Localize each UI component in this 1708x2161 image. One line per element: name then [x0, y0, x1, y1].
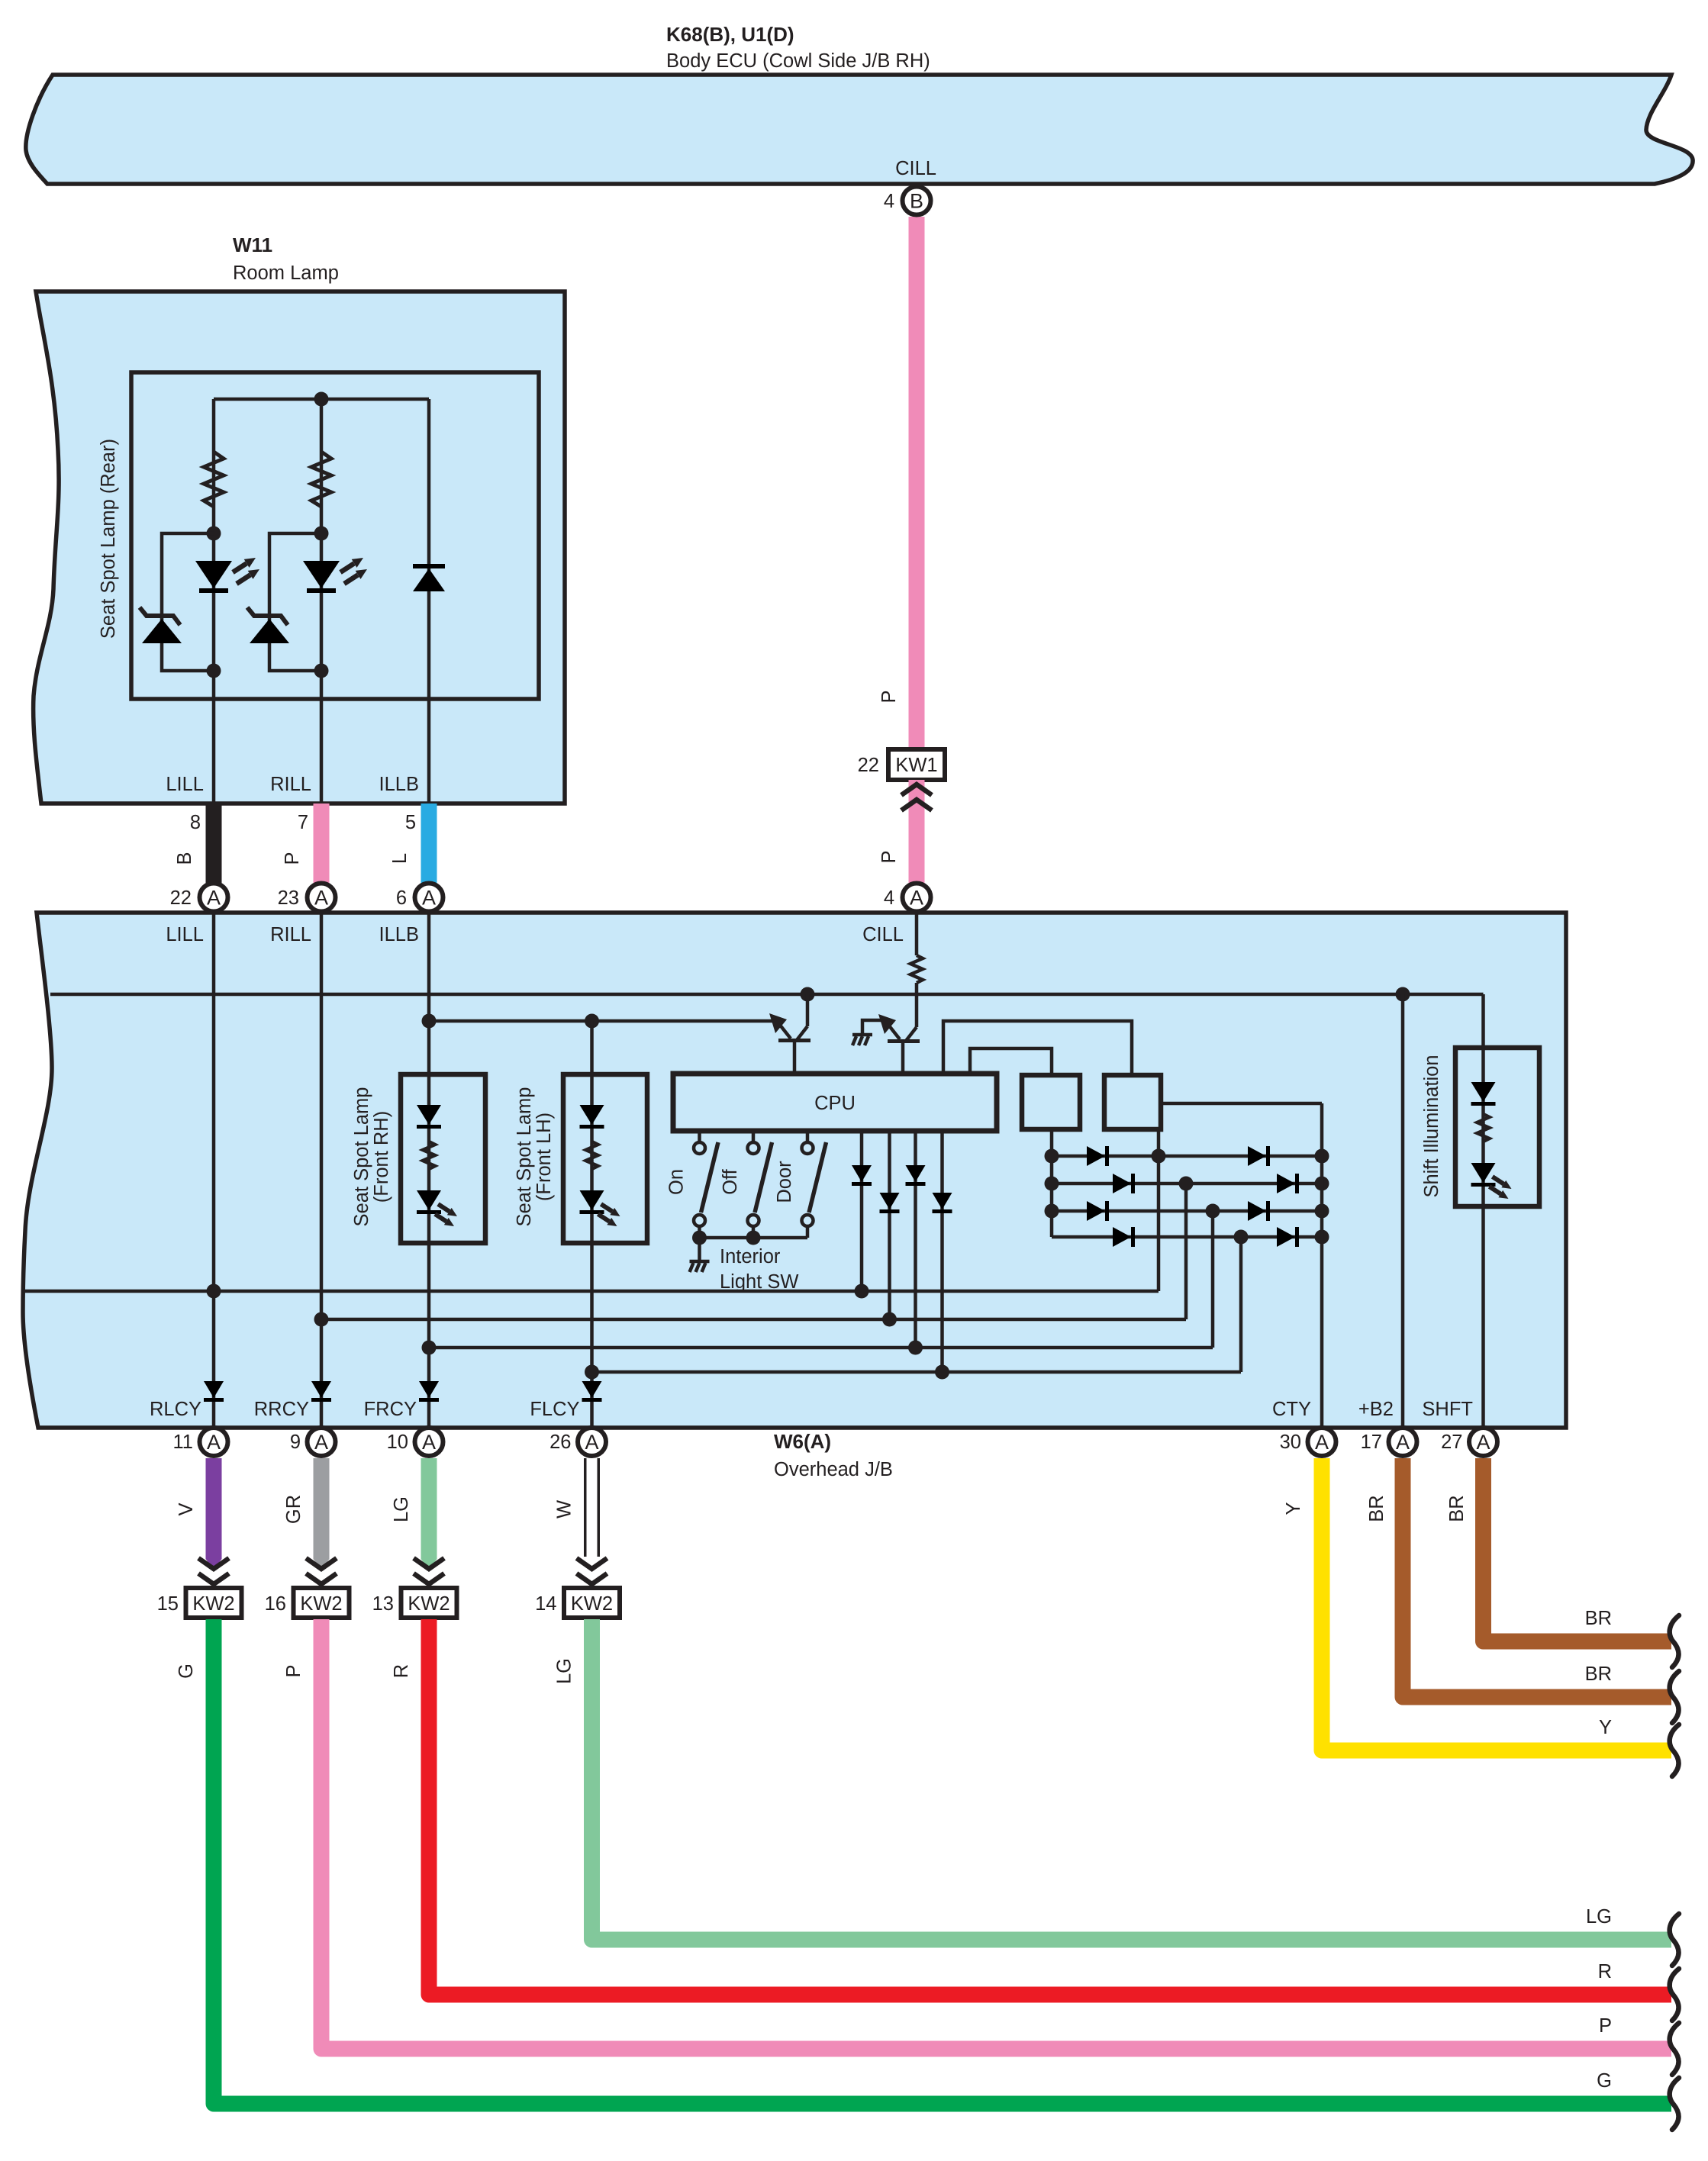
diode output FRCY [419, 1381, 439, 1402]
svg-text:RRCY: RRCY [254, 1399, 309, 1420]
svg-text:10: 10 [387, 1432, 408, 1453]
Shift Illumination box [1455, 1048, 1539, 1206]
diode matrix row 3 right [1248, 1201, 1270, 1221]
wire V from connector to KW2 [206, 1458, 222, 1559]
wire CPU output column x=1199.5 [914, 1131, 917, 1348]
svg-text:4: 4 [884, 887, 894, 909]
wire matrix row 2 [1052, 1182, 1322, 1186]
switch On contact [698, 1131, 701, 1238]
wire matrix row 4 [1052, 1235, 1322, 1239]
svg-text:Shift Illumination: Shift Illumination [1421, 1055, 1442, 1197]
wire CILL column [915, 913, 919, 1027]
svg-text:KW2: KW2 [192, 1593, 234, 1615]
svg-text:ILLB: ILLB [379, 924, 419, 945]
diode matrix row 2 right [1277, 1174, 1299, 1193]
diode on CPU output x=1234.5 [933, 1193, 952, 1213]
svg-text:V: V [176, 1502, 197, 1515]
junction dot bus y=1766 x=562 [422, 1341, 437, 1355]
wire bus B4 [592, 1370, 1242, 1374]
diode in Shift Illumination [1471, 1082, 1496, 1106]
connector 17(A) bottom [1389, 1428, 1417, 1456]
junction dot bus2 at FLCY [585, 1014, 599, 1029]
svg-text:5: 5 [405, 812, 416, 833]
LED in Front LH lamp [580, 1190, 604, 1214]
diode matrix row 4 right [1277, 1227, 1299, 1247]
svg-text:6: 6 [396, 887, 407, 909]
junction dot bus1 at Q1 collector [801, 987, 815, 1002]
Overhead J/B W6(A) block [23, 913, 1566, 1428]
svg-text:FRCY: FRCY [364, 1399, 417, 1420]
wire CPU output column x=1129 [860, 1131, 864, 1291]
svg-text:P: P [1599, 2015, 1612, 2037]
wire matrix left vertical [1050, 1129, 1054, 1237]
wire Y from connector x=1732 to right edge [1322, 1458, 1671, 1750]
diode in Front RH lamp [417, 1105, 441, 1129]
node dot LILL lower [207, 664, 221, 678]
connector KW2 pin 13 [401, 1588, 457, 1618]
svg-text:LILL: LILL [166, 774, 204, 795]
wire dropper row1 to bus B1 [1157, 1129, 1161, 1291]
svg-text:BR: BR [1585, 1608, 1612, 1629]
Seat Spot Lamp (Front RH) box [401, 1074, 485, 1243]
svg-text:16: 16 [265, 1593, 286, 1615]
svg-text:15: 15 [157, 1593, 179, 1615]
connector KW2 pin 14 [564, 1588, 620, 1618]
wire dropper row2 to bus B2 [1184, 1184, 1188, 1319]
junction dot bus y=1729 x=1165.5 [882, 1312, 897, 1327]
resistor on CILL [910, 955, 923, 983]
wire RILL column in room lamp [320, 399, 324, 884]
female arrow chevrons into KW2 [198, 1558, 229, 1584]
node dot RILL lower [314, 664, 329, 678]
svg-text:7: 7 [298, 812, 308, 833]
wire G from KW2 to right edge [214, 1619, 1671, 2104]
junction dot matrix row 2 middle [1179, 1177, 1194, 1191]
diode output FLCY [582, 1381, 602, 1402]
svg-text:GR: GR [283, 1495, 305, 1524]
connector 9(A) bottom [308, 1428, 336, 1456]
diode on CPU output x=1129 [852, 1165, 872, 1186]
wire CPU output column x=1165.5 [888, 1131, 891, 1319]
wire break squiggle y=2542 [1670, 1914, 1679, 1966]
wire CILL pink from KW1 to 4(A) [909, 780, 925, 884]
svg-text:23: 23 [278, 887, 299, 909]
svg-text:LG: LG [554, 1658, 575, 1684]
svg-text:W6(A): W6(A) [774, 1430, 831, 1453]
junction dot matrix row 4 middle [1234, 1230, 1249, 1245]
svg-text:9: 9 [290, 1432, 301, 1453]
svg-text:Seat Spot Lamp: Seat Spot Lamp [351, 1087, 372, 1227]
wire break squiggle y=2614 [1670, 1969, 1679, 2021]
svg-text:Off: Off [720, 1168, 741, 1194]
wire stub L (blue) pin 5 [421, 804, 437, 884]
svg-text:22: 22 [170, 887, 192, 909]
LED in Front RH lamp [417, 1190, 441, 1214]
svg-text:LILL: LILL [166, 924, 204, 945]
wire break squiggle y=2685 [1670, 2023, 1679, 2075]
svg-text:(Front RH): (Front RH) [371, 1111, 392, 1203]
svg-text:Seat Spot Lamp (Rear): Seat Spot Lamp (Rear) [98, 439, 119, 639]
wire U3 right pin to CTY column [1161, 1102, 1322, 1106]
svg-text:G: G [1597, 2070, 1612, 2092]
female arrow chevrons into KW2 [306, 1558, 337, 1584]
Seat Spot Lamp (Front LH) box [563, 1074, 647, 1243]
connector 30(A) bottom [1308, 1428, 1336, 1456]
switch Off contact [752, 1131, 756, 1238]
svg-text:Overhead J/B: Overhead J/B [774, 1459, 893, 1480]
male arrow chevrons into KW1 [901, 784, 932, 810]
transistor Q2 [878, 1014, 920, 1074]
wire CTY column [1320, 1103, 1324, 1428]
wire ILLB/FRCY column [427, 913, 431, 1428]
svg-text:R: R [1598, 1961, 1612, 1982]
svg-text:W: W [554, 1500, 575, 1518]
wire ILLB column in room lamp [427, 399, 431, 884]
connector 4(A) [903, 884, 931, 912]
diode D3 rear (ILLB) [413, 564, 445, 591]
wire break squiggle y=2757 [1670, 2078, 1679, 2130]
diode matrix row 2 left [1113, 1174, 1135, 1193]
connector 4(B) [903, 187, 931, 215]
resistor R (right rear lamp) [311, 452, 331, 507]
svg-text:14: 14 [535, 1593, 556, 1615]
junction dot bus1 at +B2 [1396, 987, 1410, 1002]
wire Q2 base feed [862, 1020, 885, 1034]
wire switch common bus [700, 1236, 808, 1240]
LED D2 rear right [303, 561, 340, 593]
node dot LILL upper [207, 527, 221, 541]
svg-text:Y: Y [1599, 1717, 1612, 1738]
wire to switch ground [698, 1238, 701, 1261]
svg-text:CILL: CILL [862, 924, 904, 945]
female arrow chevrons into KW2 [577, 1558, 607, 1584]
resistor in Front RH lamp [423, 1142, 435, 1169]
resistor in Shift Illumination [1478, 1114, 1490, 1142]
svg-text:P: P [282, 852, 303, 865]
wire CPU to right logic box [943, 1021, 1132, 1075]
Seat Spot Lamp (Rear) inner box [131, 372, 539, 699]
wire CPU output column x=1234.5 [940, 1131, 944, 1372]
svg-text:8: 8 [190, 812, 201, 833]
svg-text:+B2: +B2 [1358, 1399, 1394, 1420]
svg-text:22: 22 [858, 755, 879, 776]
svg-text:CTY: CTY [1272, 1399, 1311, 1420]
diode output RLCY [204, 1381, 224, 1402]
wire CPU to middle logic box [970, 1048, 1052, 1075]
connector 11(A) bottom [200, 1428, 228, 1456]
svg-text:26: 26 [549, 1432, 571, 1453]
junction dot bus y=1729 x=421 [314, 1312, 329, 1327]
wire break squiggle y=2224 [1670, 1671, 1679, 1723]
switch Door contact [806, 1131, 810, 1238]
wire break squiggle y=2151 [1670, 1615, 1679, 1667]
connector 26(A) bottom [578, 1428, 606, 1456]
svg-text:P: P [283, 1664, 305, 1677]
svg-text:FLCY: FLCY [530, 1399, 579, 1420]
svg-text:R: R [391, 1664, 412, 1678]
wire horizontal bus 1 (top) [50, 993, 1484, 997]
wire dropper row4 to bus B4 [1239, 1237, 1243, 1372]
wire zener branch left [162, 533, 214, 671]
svg-text:(Front LH): (Front LH) [533, 1113, 555, 1201]
svg-text:CPU: CPU [814, 1093, 856, 1114]
connector KW2 pin 16 [294, 1588, 350, 1618]
junction dot matrix row 1 middle [1152, 1149, 1166, 1164]
wire zener branch right [269, 533, 321, 671]
svg-text:LG: LG [1586, 1906, 1612, 1928]
svg-text:Interior: Interior [720, 1246, 781, 1267]
svg-text:KW2: KW2 [571, 1593, 613, 1615]
junction dot matrix row 2 left [1045, 1177, 1059, 1191]
female arrow chevrons into KW2 [414, 1558, 444, 1584]
svg-text:13: 13 [372, 1593, 394, 1615]
svg-text:L: L [389, 853, 411, 864]
wire stub P (pink) pin 7 [314, 804, 330, 884]
diode matrix row 3 left [1087, 1201, 1109, 1221]
wire bus B3 [429, 1346, 1213, 1350]
zener ZD2 rear right [247, 607, 289, 643]
svg-text:ILLB: ILLB [379, 774, 419, 795]
wire BR from connector x=1838 to right edge [1403, 1458, 1671, 1697]
junction dot matrix row 3 middle [1206, 1204, 1220, 1219]
svg-text:RILL: RILL [270, 774, 311, 795]
ground Interior Light SW [690, 1261, 710, 1272]
connector 27(A) bottom [1469, 1428, 1497, 1456]
svg-text:BR: BR [1366, 1495, 1387, 1522]
svg-text:Room Lamp: Room Lamp [233, 262, 339, 284]
resistor in Front LH lamp [586, 1142, 598, 1169]
svg-text:17: 17 [1361, 1432, 1382, 1453]
junction dot matrix row 2 right [1315, 1177, 1329, 1191]
wire matrix row 1 [1052, 1155, 1322, 1158]
junction dot matrix row 3 left [1045, 1204, 1059, 1219]
connector 10(A) bottom [415, 1428, 443, 1456]
logic box U2 (middle) [1022, 1075, 1080, 1129]
junction dot on top bus at RILL [314, 392, 329, 407]
svg-text:Door: Door [774, 1161, 795, 1203]
junction dot switch bus On [692, 1231, 707, 1245]
wire LILL column in room lamp [212, 399, 216, 884]
wire P from KW2 to right edge [321, 1619, 1671, 2049]
junction dot bus y=1766 x=1199.5 [908, 1341, 923, 1355]
wire RILL/RRCY column [320, 913, 324, 1428]
wire SHFT column [1481, 994, 1485, 1428]
wire +B2 column [1401, 994, 1405, 1428]
svg-text:BR: BR [1446, 1495, 1468, 1522]
ground at Q2 [852, 1035, 872, 1045]
svg-text:KW2: KW2 [300, 1593, 342, 1615]
LED in Shift Illumination [1471, 1163, 1496, 1187]
junction dot bus y=1692 x=280 [207, 1284, 221, 1299]
svg-text:On: On [666, 1169, 688, 1195]
svg-text:RILL: RILL [270, 924, 311, 945]
wire LG from KW2 to right edge [592, 1619, 1672, 1940]
connector 22(A) [200, 884, 228, 912]
diode matrix row 1 right [1248, 1146, 1270, 1166]
svg-text:KW1: KW1 [895, 755, 937, 776]
junction dot matrix row 3 right [1315, 1204, 1329, 1219]
svg-text:4: 4 [884, 191, 894, 212]
connector 6(A) [415, 884, 443, 912]
diode output RRCY [311, 1381, 331, 1402]
Room Lamp W11 block [34, 291, 565, 804]
CPU block [673, 1074, 997, 1131]
svg-text:CILL: CILL [895, 158, 936, 179]
wire break squiggle y=2294 [1670, 1725, 1679, 1776]
diode in Front LH lamp [580, 1105, 604, 1129]
wire LILL/RLCY column [212, 913, 216, 1428]
wire stub B (black) pin 8 [206, 804, 222, 884]
svg-text:G: G [176, 1663, 197, 1679]
wire LG from connector to KW2 [421, 1458, 437, 1559]
svg-text:30: 30 [1280, 1432, 1301, 1453]
junction dot bus y=1798 x=775.5 [585, 1365, 599, 1380]
diode matrix row 1 left [1087, 1146, 1109, 1166]
zener ZD1 rear left [140, 607, 182, 643]
svg-text:W11: W11 [233, 233, 272, 256]
junction dot matrix row 4 right [1315, 1230, 1329, 1245]
diode matrix row 4 left [1113, 1227, 1135, 1247]
connector KW2 pin 15 [186, 1588, 242, 1618]
wire matrix row 3 [1052, 1209, 1322, 1213]
svg-text:P: P [878, 850, 900, 863]
Body ECU block K68(B), U1(D) (Cowl Side J/B RH) [26, 75, 1693, 184]
junction dot switch bus Off [746, 1231, 761, 1245]
wire BR from connector x=1943.5 to right edge [1484, 1458, 1672, 1641]
wire top bus in rear lamp [214, 398, 429, 401]
svg-text:Body ECU (Cowl Side J/B RH): Body ECU (Cowl Side J/B RH) [666, 50, 930, 72]
wire W from connector to KW2 [584, 1458, 600, 1557]
svg-text:RLCY: RLCY [150, 1399, 201, 1420]
svg-text:Y: Y [1283, 1502, 1304, 1515]
svg-text:P: P [878, 690, 900, 703]
LED D1 rear left [195, 561, 232, 593]
svg-text:KW2: KW2 [408, 1593, 450, 1615]
logic box U3 (right) [1104, 1075, 1161, 1129]
junction dot matrix row 1 right [1315, 1149, 1329, 1164]
node dot RILL upper [314, 527, 329, 541]
svg-text:B: B [174, 852, 195, 865]
wire CILL pink from 4(B) to KW1 [909, 217, 925, 749]
diode on CPU output x=1199.5 [906, 1165, 926, 1186]
diode on CPU output x=1165.5 [880, 1193, 900, 1213]
resistor R (left rear lamp) [204, 452, 224, 507]
wire FLCY column [590, 1021, 594, 1428]
wire horizontal bus 2 [429, 1019, 776, 1023]
connector 23(A) [308, 884, 336, 912]
svg-text:K68(B), U1(D): K68(B), U1(D) [666, 23, 794, 46]
svg-text:LG: LG [391, 1496, 412, 1522]
junction dot bus y=1798 x=1234.5 [935, 1365, 949, 1380]
wire dropper row3 to bus B3 [1211, 1211, 1215, 1348]
svg-text:SHFT: SHFT [1422, 1399, 1473, 1420]
transistor Q1 [769, 994, 810, 1074]
svg-text:Seat Spot Lamp: Seat Spot Lamp [514, 1087, 535, 1227]
connector KW1 pin 22 [888, 749, 945, 780]
wire bus B1 [24, 1290, 1159, 1293]
junction dot matrix row 1 left [1045, 1149, 1059, 1164]
wire GR from connector to KW2 [314, 1458, 330, 1559]
junction dot bus2 at ILLB [422, 1014, 437, 1029]
wire bus B2 [321, 1318, 1186, 1322]
wire R from KW2 to right edge [429, 1619, 1671, 1995]
junction dot bus y=1692 x=1129 [855, 1284, 869, 1299]
svg-text:27: 27 [1441, 1432, 1462, 1453]
svg-text:BR: BR [1585, 1663, 1612, 1685]
svg-text:11: 11 [173, 1432, 193, 1453]
